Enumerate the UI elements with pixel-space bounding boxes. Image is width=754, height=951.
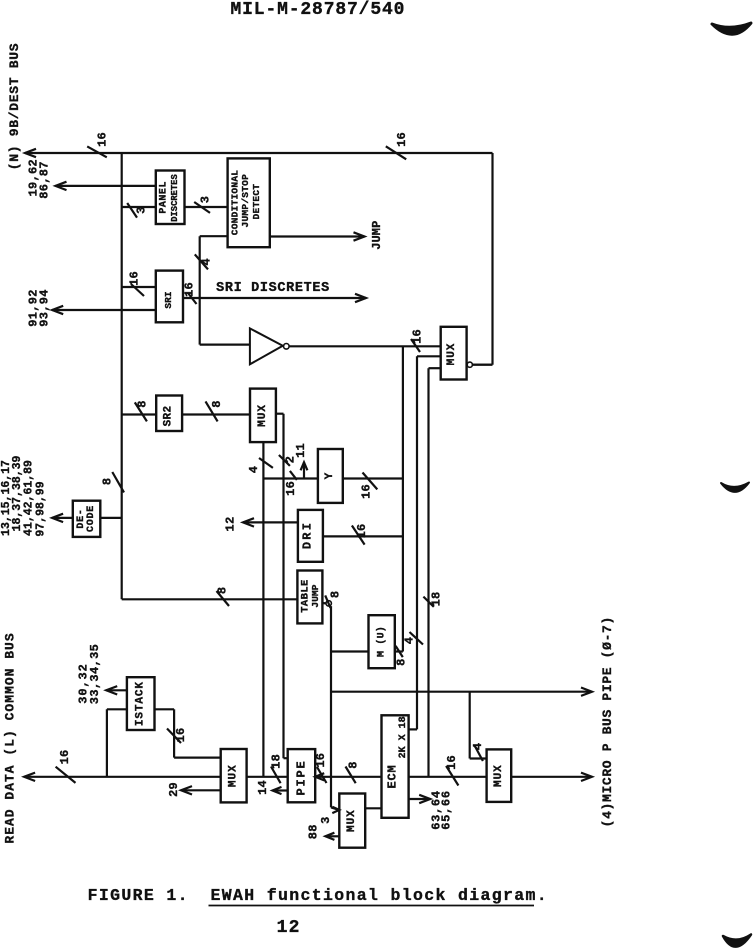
svg-text:SR2: SR2 [163, 406, 175, 427]
svg-text:2K X 18: 2K X 18 [398, 716, 409, 758]
svg-text:18: 18 [430, 592, 444, 607]
svg-text:4: 4 [247, 466, 261, 473]
svg-text:DRI: DRI [301, 521, 315, 549]
svg-text:READ DATA (L) COMMON BUS: READ DATA (L) COMMON BUS [3, 632, 18, 843]
svg-text:JUMP: JUMP [310, 584, 321, 607]
svg-text:16: 16 [314, 753, 328, 768]
svg-text:16: 16 [395, 132, 409, 147]
svg-text:8: 8 [347, 761, 361, 768]
svg-text:DETECT: DETECT [251, 184, 262, 220]
svg-text:ECM: ECM [385, 764, 399, 788]
svg-text:18: 18 [270, 754, 284, 769]
svg-text:JUMP: JUMP [370, 221, 384, 250]
svg-text:11: 11 [294, 443, 308, 458]
svg-text:97,98,99: 97,98,99 [35, 481, 48, 536]
svg-text:CONDITIONAL: CONDITIONAL [230, 170, 241, 236]
svg-text:16: 16 [359, 484, 373, 499]
svg-text:16: 16 [284, 481, 298, 496]
svg-text:3: 3 [134, 206, 148, 213]
svg-text:DISCRETES: DISCRETES [170, 174, 180, 222]
svg-text:(4)MICRO P BUS PIPE (Ø-7): (4)MICRO P BUS PIPE (Ø-7) [600, 616, 615, 827]
svg-text:M (U): M (U) [376, 626, 388, 657]
svg-text:16: 16 [96, 132, 110, 147]
svg-text:16: 16 [355, 524, 369, 539]
svg-text:PIPE: PIPE [294, 759, 308, 795]
svg-text:88: 88 [307, 824, 321, 839]
svg-text:8: 8 [395, 658, 409, 665]
svg-text:MUX: MUX [228, 764, 240, 787]
svg-text:8: 8 [210, 400, 224, 407]
svg-text:12: 12 [277, 918, 301, 938]
svg-text:16: 16 [128, 271, 142, 286]
svg-text:14: 14 [256, 780, 270, 795]
svg-text:MUX: MUX [346, 809, 358, 832]
svg-text:SRI: SRI [163, 291, 174, 308]
svg-text:16: 16 [411, 329, 425, 344]
svg-text:4: 4 [402, 637, 416, 644]
svg-text:8: 8 [135, 400, 149, 407]
svg-text:16: 16 [183, 282, 197, 297]
svg-text:3: 3 [319, 816, 333, 823]
svg-text:8: 8 [328, 591, 342, 598]
svg-text:FIGURE 1.: FIGURE 1. [88, 886, 189, 905]
svg-text:93,94: 93,94 [38, 289, 52, 327]
svg-text:Y: Y [324, 472, 336, 479]
svg-text:12: 12 [224, 516, 238, 532]
svg-text:3: 3 [198, 196, 212, 203]
svg-text:MIL-M-28787/540: MIL-M-28787/540 [231, 0, 406, 20]
svg-text:4: 4 [200, 258, 214, 265]
svg-text:86,87: 86,87 [38, 161, 52, 199]
svg-text:(N) 9B/DEST BUS: (N) 9B/DEST BUS [7, 43, 22, 171]
svg-text:8: 8 [216, 587, 230, 594]
svg-text:CODE: CODE [86, 505, 97, 532]
svg-text:33,34,35: 33,34,35 [88, 644, 102, 704]
svg-text:MUX: MUX [257, 404, 269, 427]
svg-text:16: 16 [445, 755, 459, 770]
svg-text:16: 16 [58, 750, 72, 765]
svg-text:MUX: MUX [493, 764, 505, 787]
svg-text:SRI DISCRETES: SRI DISCRETES [216, 281, 330, 296]
svg-text:JUMP/STOP: JUMP/STOP [240, 174, 251, 228]
svg-text:PANEL: PANEL [159, 181, 170, 214]
svg-text:MUX: MUX [446, 343, 458, 366]
svg-text:EWAH functional block diagram.: EWAH functional block diagram. [211, 886, 549, 905]
svg-text:8: 8 [101, 478, 115, 485]
svg-text:4: 4 [471, 743, 485, 750]
svg-text:29: 29 [167, 782, 181, 797]
svg-text:ISTACK: ISTACK [135, 681, 147, 726]
svg-text:65,66: 65,66 [439, 790, 453, 830]
svg-text:16: 16 [174, 728, 188, 743]
